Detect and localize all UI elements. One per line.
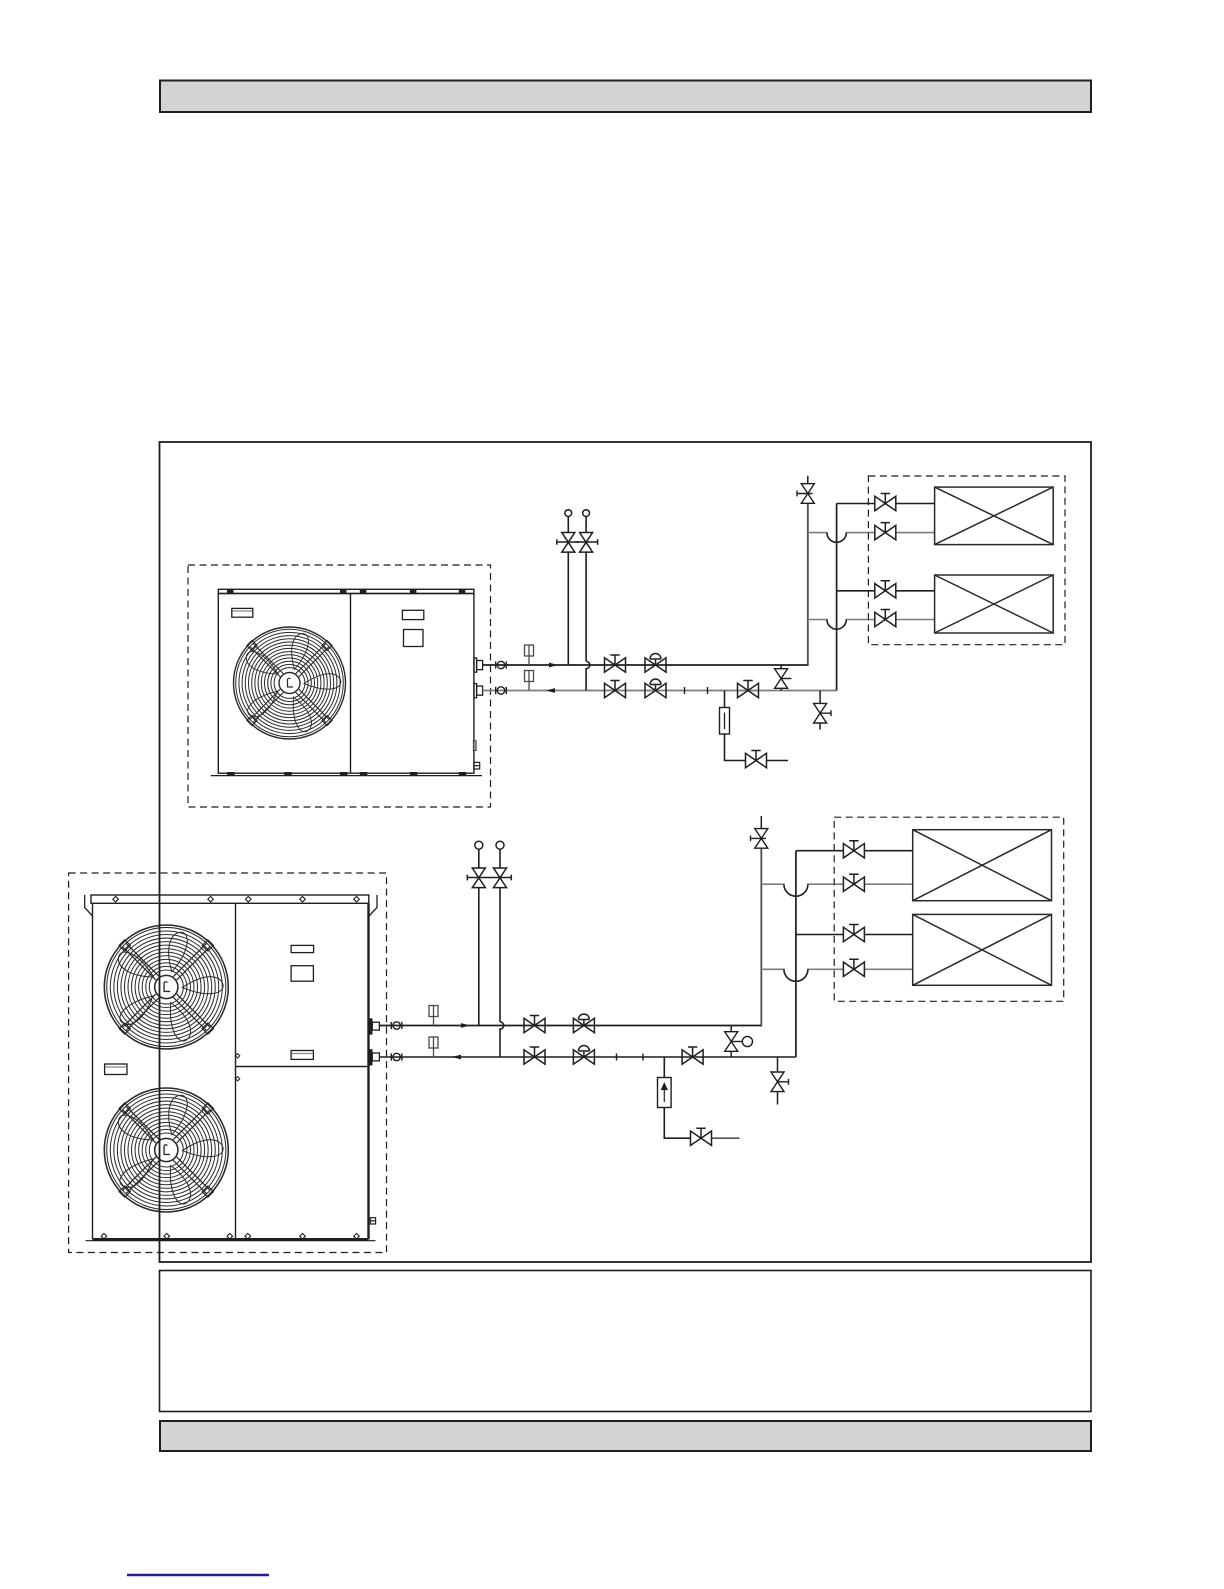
outdoor unit 1 terminal block bbox=[474, 762, 480, 769]
outdoor unit 2 corner brackets bbox=[85, 895, 377, 916]
branch 1 valve bbox=[843, 841, 864, 858]
circuit 1 supply thermometer bbox=[525, 645, 534, 665]
circuit 2 supply union bbox=[391, 1022, 402, 1029]
footer blue rule bbox=[127, 1574, 269, 1577]
circuit 1 return flow arrow bbox=[546, 688, 555, 693]
circuit 2 differential bypass valve bbox=[725, 1026, 753, 1058]
circuit 2 drain valve bbox=[691, 1128, 712, 1145]
outdoor unit 1 dashed enclosure bbox=[188, 565, 491, 807]
circuit 1 return shutoff valve bbox=[605, 681, 626, 698]
note box bbox=[160, 1271, 1092, 1412]
circuit 2 supply flow arrow bbox=[461, 1023, 470, 1028]
circuit 2 return shutoff valve bbox=[524, 1047, 545, 1064]
circuit 1 air vent valve bbox=[797, 476, 814, 504]
outdoor unit 1 cap clips bbox=[227, 590, 465, 593]
indoor units group 1 dashed enclosure bbox=[868, 476, 1065, 645]
branch 4 valve bbox=[875, 610, 896, 627]
circuit 2 return union bbox=[391, 1053, 402, 1060]
outdoor unit 2 dashed enclosure bbox=[69, 873, 387, 1253]
circuit 1 branch 2 return with crossover bbox=[808, 533, 875, 543]
circuit 2 supply pipe bbox=[379, 849, 761, 1026]
circuit 2 vent-drain valve bbox=[771, 1057, 789, 1105]
circuit 2 safety valve 1 bbox=[467, 841, 489, 1025]
circuit 2 return thermometer bbox=[429, 1037, 438, 1057]
indoor unit 2B heat exchanger bbox=[913, 914, 1052, 985]
branch 3 valve bbox=[875, 581, 896, 598]
circuit 1 return thermometer bbox=[525, 671, 534, 691]
outdoor unit 1 side handle bbox=[473, 741, 476, 751]
circuit 2 return isolating valve bbox=[682, 1047, 703, 1064]
branch 2 valve bbox=[875, 523, 896, 540]
circuit 2 return pipe bbox=[379, 1056, 796, 1058]
circuit 1 return pipe bbox=[483, 690, 837, 692]
outdoor unit 1 cabinet bbox=[211, 589, 482, 775]
circuit 1 branch 1 supply bbox=[837, 503, 875, 505]
indoor units group 2 dashed enclosure bbox=[834, 817, 1063, 1001]
header gray bar bbox=[160, 81, 1091, 113]
outdoor unit 2 fan lower bbox=[104, 1088, 228, 1212]
circuit 2 safety valve 2 bbox=[489, 841, 511, 1057]
footer gray bar bbox=[160, 1421, 1091, 1451]
circuit 2 branch 3 supply bbox=[796, 934, 844, 936]
unit 2 return stub flange bbox=[369, 1049, 379, 1065]
circuit 1 safety valve 1 bbox=[557, 510, 579, 665]
circuit 1 drain branch with sight glass bbox=[720, 691, 789, 761]
circuit 1 return riser bbox=[836, 504, 838, 691]
circuit 1 return joints bbox=[685, 687, 708, 694]
circuit 2 supply thermometer bbox=[429, 1006, 438, 1026]
outdoor unit 1 fan bbox=[234, 627, 346, 739]
circuit 1 supply flow arrow bbox=[549, 663, 558, 668]
main diagram frame bbox=[160, 442, 1092, 1262]
outdoor unit 2 cabinet bbox=[86, 895, 376, 1241]
branch 2 valve bbox=[843, 874, 864, 891]
outdoor unit 1 nameplate bbox=[232, 608, 253, 617]
circuit 1 supply riser bbox=[807, 503, 809, 665]
circuit 2 supply riser bbox=[760, 848, 762, 1025]
unit 1 supply stub flange bbox=[474, 658, 483, 672]
circuit 1 safety valve 2 bbox=[576, 510, 598, 691]
indoor unit 2A heat exchanger bbox=[913, 830, 1052, 901]
circuit 1 branch 4 return with crossover bbox=[808, 620, 875, 630]
circuit 2 drain branch with flow indicator bbox=[658, 1057, 740, 1138]
outdoor unit 2 terminal block bbox=[370, 1218, 375, 1224]
circuit 1 supply shutoff valve bbox=[605, 655, 626, 672]
circuit 1 supply balancing valve bbox=[645, 654, 666, 673]
circuit 1 bypass valve bbox=[775, 665, 792, 691]
indoor unit 1A heat exchanger bbox=[935, 487, 1054, 544]
circuit 1 return balancing valve bbox=[645, 679, 666, 698]
circuit 2 branch 1 supply bbox=[796, 850, 844, 852]
circuit 2 branch 4 return with crossover bbox=[761, 969, 843, 981]
circuit 2 return riser bbox=[795, 851, 797, 1057]
circuit 1 supply union bbox=[496, 661, 507, 668]
circuit 1 vent-drain valve bbox=[814, 691, 831, 730]
circuit 2 return flow arrow bbox=[452, 1055, 461, 1060]
circuit 1 drain valve bbox=[746, 751, 767, 768]
outdoor unit 1 control panel openings bbox=[402, 610, 423, 646]
unit 2 supply stub flange bbox=[369, 1019, 379, 1035]
outdoor unit 1 feet bbox=[227, 772, 466, 775]
circuit 2 return balancing valve bbox=[573, 1046, 594, 1065]
circuit 1 return union bbox=[496, 687, 507, 694]
circuit 2 air vent valve bbox=[751, 816, 768, 848]
circuit 1 return isolating valve bbox=[738, 681, 759, 698]
outdoor unit 2 fan upper bbox=[104, 925, 228, 1049]
circuit 2 supply shutoff valve bbox=[524, 1016, 545, 1033]
branch 3 valve bbox=[843, 925, 864, 942]
circuit 2 return joints bbox=[617, 1054, 644, 1061]
circuit 1 supply pipe bbox=[483, 503, 808, 665]
circuit 2 branch 2 return with crossover bbox=[761, 884, 843, 896]
circuit 1 branch 3 supply bbox=[837, 590, 875, 592]
outdoor unit 2 control panel openings bbox=[291, 945, 314, 1059]
outdoor unit 2 bottom screws bbox=[101, 1233, 359, 1239]
outdoor unit 2 nameplate bbox=[105, 1064, 127, 1075]
branch 1 valve bbox=[875, 494, 896, 511]
outdoor unit 2 divider screws bbox=[235, 1054, 239, 1081]
circuit 2 supply balancing valve bbox=[573, 1014, 594, 1033]
outdoor unit 2 top screws bbox=[113, 896, 359, 902]
unit 1 return stub flange bbox=[474, 684, 483, 698]
indoor unit 1B heat exchanger bbox=[935, 575, 1054, 633]
branch 4 valve bbox=[843, 959, 864, 976]
